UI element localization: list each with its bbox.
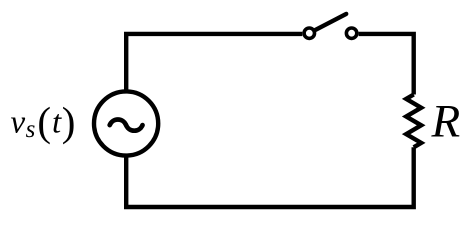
resistor R (zigzag) bbox=[406, 95, 421, 148]
switch SW1 right contact circle bbox=[346, 28, 356, 38]
wire: top-right segment and right wire down to resistor bbox=[359, 34, 414, 95]
svg-text:R: R bbox=[431, 96, 461, 148]
switch SW1 lever bbox=[315, 14, 346, 30]
wire: top-left segment and left wire down to source bbox=[126, 34, 302, 92]
switch SW1 left contact circle bbox=[304, 28, 314, 38]
voltage source V1 (AC, circle) bbox=[94, 91, 158, 155]
sine symbol inside source bbox=[110, 119, 143, 130]
svg-text:vs(t): vs(t) bbox=[11, 99, 76, 145]
wire: left wire below source, bottom wire, right wire up to resistor bbox=[126, 147, 414, 207]
